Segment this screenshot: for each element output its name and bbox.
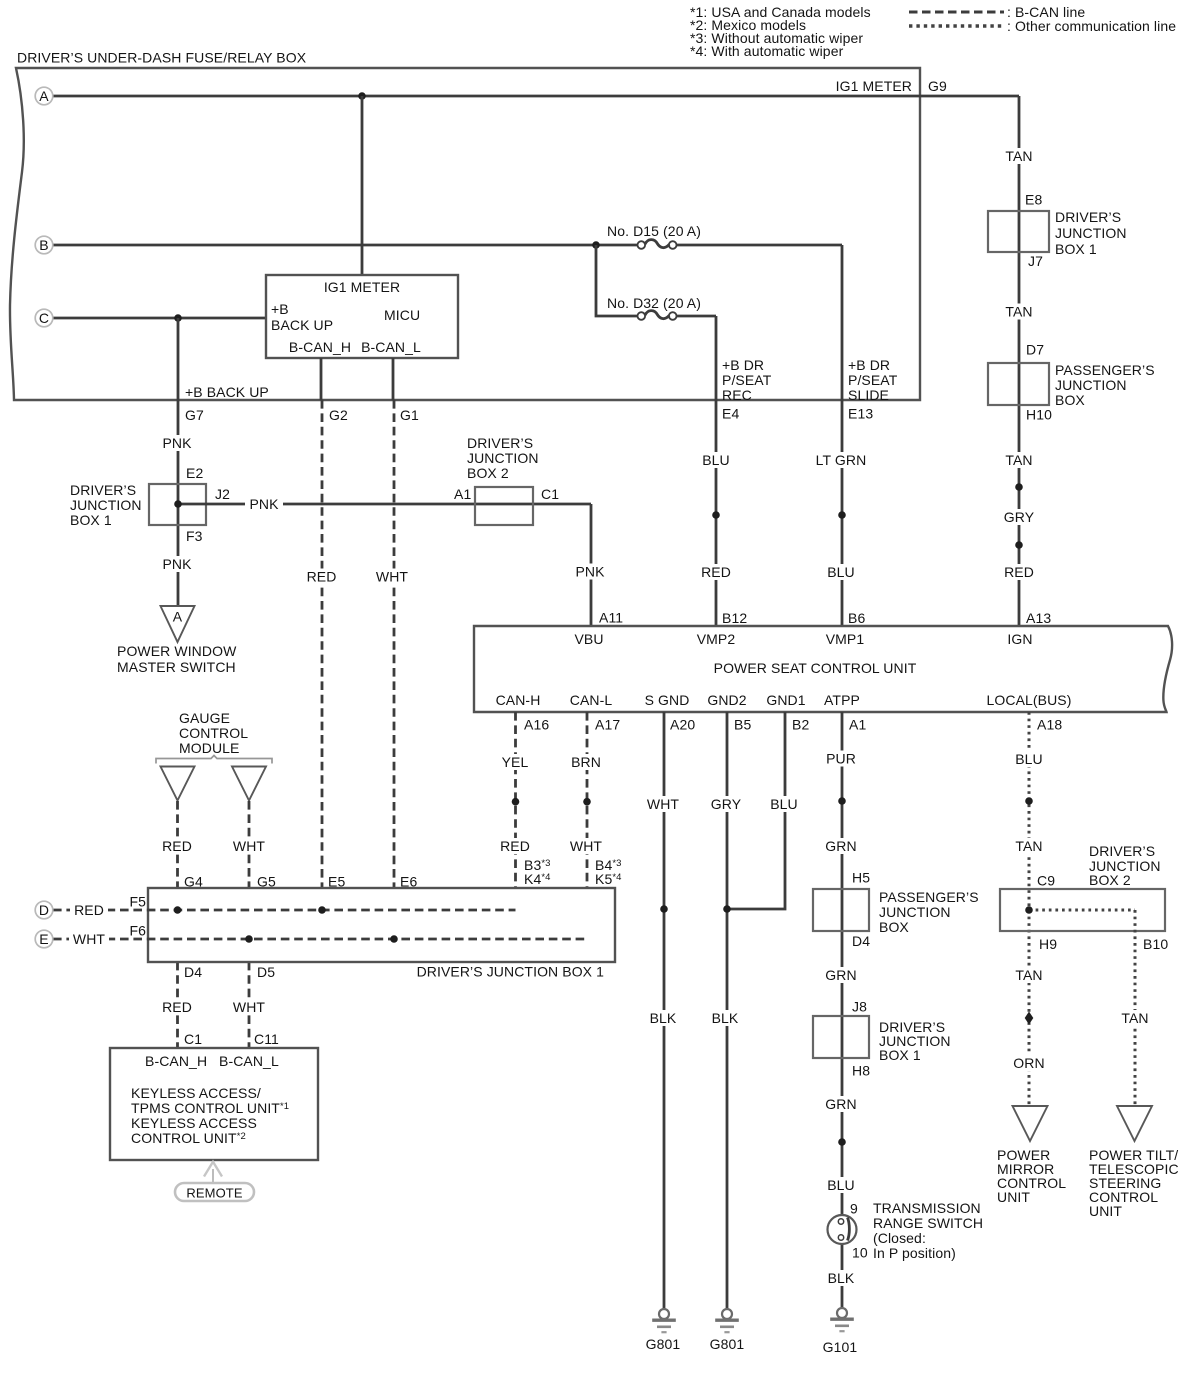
label power mirror control unit — [997, 1147, 1066, 1205]
pin G7 — [185, 407, 204, 423]
svg-text:DRIVER’S: DRIVER’S — [1055, 209, 1121, 225]
svg-text:IGN: IGN — [1007, 631, 1032, 647]
svg-text:BLK: BLK — [650, 1010, 677, 1026]
svg-text:JUNCTION: JUNCTION — [1055, 225, 1127, 241]
svg-text:PUR: PUR — [826, 750, 856, 766]
transmission range switch — [828, 1215, 857, 1244]
svg-text:PNK: PNK — [575, 563, 605, 579]
dotted branch inside junction box 2 — [1029, 910, 1135, 1106]
svg-text:UNIT: UNIT — [1089, 1203, 1122, 1219]
pin name B-CAN_H (keyless) — [145, 1053, 207, 1069]
wire label RED on G4 line — [159, 838, 195, 854]
wire B-CAN row F6 (dashed) — [53, 938, 587, 941]
wire label ORN — [1010, 1055, 1048, 1071]
wire label BLU below E4 — [698, 452, 734, 468]
svg-text:WHT: WHT — [233, 838, 266, 854]
label driver's junction box 1 (bottom) — [417, 963, 605, 979]
wire branch to fuse D32 — [596, 245, 716, 626]
svg-text:E2: E2 — [186, 465, 203, 481]
pin H5 — [852, 869, 870, 885]
label passenger's junction box (mid right) — [879, 889, 979, 935]
pin J8 — [852, 998, 867, 1014]
junction dot G5/F6 — [245, 935, 253, 943]
note *4 With automatic wiper — [690, 43, 844, 59]
wire label BLU above switch — [823, 1177, 859, 1193]
pin H8 — [852, 1062, 870, 1078]
wire label GRN above H5 — [822, 838, 860, 854]
svg-text:PASSENGER’S: PASSENGER’S — [1055, 362, 1155, 378]
svg-text:PNK: PNK — [162, 435, 192, 451]
svg-text:G801: G801 — [710, 1336, 745, 1352]
pin G5 — [257, 873, 276, 889]
ground G801 left — [652, 1309, 676, 1332]
svg-text:WHT: WHT — [570, 838, 603, 854]
pin B6 — [848, 610, 865, 626]
svg-text:B5: B5 — [734, 716, 751, 732]
svg-text:VMP2: VMP2 — [697, 631, 736, 647]
pin B3*3 — [524, 857, 551, 873]
svg-text:MODULE: MODULE — [179, 740, 240, 756]
svg-text:GRY: GRY — [711, 796, 742, 812]
wire label TAN below H10 — [1001, 452, 1037, 468]
svg-text:No. D32 (20 A): No. D32 (20 A) — [607, 295, 701, 311]
svg-text:BOX 2: BOX 2 — [1089, 872, 1131, 888]
wire label BLU above B6 — [823, 564, 859, 580]
pin B-CAN_H label — [289, 339, 351, 355]
svg-text:C11: C11 — [254, 1031, 279, 1047]
wire label WHT at node E — [69, 931, 109, 947]
svg-text:GRN: GRN — [825, 1096, 856, 1112]
pin C1 (junction box 2) — [541, 486, 559, 502]
svg-text:J8: J8 — [852, 998, 867, 1014]
svg-text:JUNCTION: JUNCTION — [1055, 377, 1127, 393]
svg-text:DRIVER’S JUNCTION BOX 1: DRIVER’S JUNCTION BOX 1 — [417, 963, 605, 979]
svg-text:G7: G7 — [185, 407, 204, 423]
fuse D15 (20 A) — [638, 240, 677, 249]
splice dot on IGN wire lower — [1015, 541, 1023, 549]
svg-text:D: D — [39, 902, 49, 918]
svg-text:B2: B2 — [792, 716, 809, 732]
svg-text:LOCAL(BUS): LOCAL(BUS) — [986, 692, 1071, 708]
pin name S GND — [645, 692, 690, 708]
circle node E — [35, 930, 53, 948]
svg-text:B6: B6 — [848, 610, 865, 626]
pin H9 — [1039, 936, 1057, 952]
svg-text:A18: A18 — [1037, 716, 1062, 732]
pin A17 — [595, 716, 620, 732]
pin H10 — [1026, 406, 1052, 422]
wire label YEL — [498, 754, 532, 770]
wire label BLU on GND1 — [766, 796, 802, 812]
svg-text:TAN: TAN — [1015, 967, 1042, 983]
passenger's junction box connector D7/H10 — [988, 363, 1049, 405]
driver's junction box 1 connector E2/F3-J2 — [149, 484, 206, 525]
wire G7 branch down to power window master switch — [177, 318, 180, 606]
wire label RED on G2 line — [304, 568, 340, 584]
splice dot on ATPP upper — [838, 797, 846, 805]
label driver's junction box 1 (top right) — [1055, 209, 1127, 257]
wire label TAN between J7 and D7 — [1001, 303, 1037, 319]
splice dot on CAN-H — [512, 798, 520, 806]
svg-text:WHT: WHT — [647, 796, 680, 812]
label driver's junction box 1 (left) — [70, 482, 142, 528]
splice dot on S GND — [660, 905, 668, 913]
svg-text:B12: B12 — [722, 610, 747, 626]
junction dot inside junction box 2 — [1025, 906, 1033, 914]
driver's junction box 1 connector J8/H8 — [813, 1016, 869, 1058]
pin D7 — [1026, 341, 1044, 357]
svg-text:C9: C9 — [1037, 872, 1055, 888]
svg-text:9: 9 — [850, 1200, 858, 1216]
splice dot on ATPP lower — [838, 1138, 846, 1146]
pin name IGN — [1007, 631, 1032, 647]
label +B BACK UP at G7 exit — [185, 384, 269, 400]
driver's junction box 2 connector A1/C1 — [475, 487, 533, 525]
pin name LOCAL(BUS) — [986, 692, 1071, 708]
wire IG1 METER feed from bus A — [361, 96, 364, 275]
label driver's junction box 2 (right) — [1089, 843, 1161, 888]
svg-text:+B DR: +B DR — [848, 357, 890, 373]
svg-text:REC: REC — [722, 387, 752, 403]
svg-text:B-CAN_L: B-CAN_L — [361, 339, 421, 355]
pin C11 (keyless unit) — [254, 1031, 279, 1047]
label MICU — [384, 307, 420, 323]
svg-text:POWER SEAT CONTROL UNIT: POWER SEAT CONTROL UNIT — [714, 660, 917, 676]
wire B-CAN gauge WHT to keyless unit (dashed) — [248, 801, 251, 1048]
wire label PNK above power window master switch — [159, 556, 195, 572]
svg-text:REMOTE: REMOTE — [186, 1185, 242, 1200]
connector arrow to power mirror control unit — [1013, 1106, 1048, 1141]
svg-text:A: A — [39, 88, 49, 104]
svg-text:D4: D4 — [184, 964, 202, 980]
wire LOCAL(BUS) dotted to driver's junction box 2 — [1028, 712, 1031, 1106]
wire label TAN on B10 run — [1117, 1010, 1153, 1026]
svg-text:J7: J7 — [1028, 253, 1043, 269]
driver's under-dash fuse/relay box outline — [10, 68, 920, 400]
svg-text:*4: With automatic wiper: *4: With automatic wiper — [690, 43, 844, 59]
svg-text:B10: B10 — [1143, 936, 1168, 952]
pin C9 — [1037, 872, 1055, 888]
svg-text:TAN: TAN — [1005, 148, 1032, 164]
pin G9 — [928, 78, 947, 94]
wire label BLK on S GND — [645, 1010, 681, 1026]
wire label GRY on GND2 — [707, 796, 745, 812]
pin E8 — [1025, 191, 1042, 207]
junction dot E5/F5 — [318, 906, 326, 914]
svg-text:BRN: BRN — [571, 754, 601, 770]
wire label PNK above A11 — [571, 563, 609, 579]
svg-text:B: B — [39, 237, 48, 253]
wire label GRY — [1000, 509, 1038, 525]
label +B DR P/SEAT SLIDE — [848, 357, 898, 403]
wire label GRN below H8 — [822, 1096, 860, 1112]
svg-text:E: E — [39, 931, 48, 947]
pin F6 — [129, 922, 146, 938]
svg-text:BOX 1: BOX 1 — [1055, 241, 1097, 257]
wire label LT GRN below E13 — [813, 452, 869, 468]
pin B-CAN_L label — [361, 339, 421, 355]
svg-text:C1: C1 — [184, 1031, 202, 1047]
svg-text:D4: D4 — [852, 933, 870, 949]
connector arrow A power window master switch — [161, 606, 195, 642]
svg-text:PNK: PNK — [249, 496, 279, 512]
label power window master switch — [117, 643, 237, 675]
svg-text:BOX: BOX — [1055, 392, 1085, 408]
junction dot on bus C for G7 branch — [174, 314, 182, 322]
svg-text:D7: D7 — [1026, 341, 1044, 357]
ground G801 right — [715, 1309, 739, 1332]
label No. D32 (20 A) — [607, 295, 701, 311]
wire label PNK below G7 — [159, 435, 195, 451]
svg-text:DRIVER’S: DRIVER’S — [1089, 843, 1155, 859]
svg-text:TPMS CONTROL UNIT*1: TPMS CONTROL UNIT*1 — [131, 1100, 289, 1116]
pin 10 — [852, 1244, 868, 1260]
svg-text:A1: A1 — [849, 716, 866, 732]
svg-text:A13: A13 — [1026, 610, 1051, 626]
IG1 METER unit title — [324, 279, 400, 295]
junction dot on bus A at IG1 METER tap — [358, 92, 366, 100]
svg-text:A17: A17 — [595, 716, 620, 732]
wire label PNK on J2 wire — [245, 496, 283, 512]
svg-text:ATPP: ATPP — [824, 692, 860, 708]
label driver's junction box 2 (mid) — [467, 435, 539, 481]
splice diamond on H9 run — [1025, 1012, 1034, 1025]
svg-text:No. D15 (20 A): No. D15 (20 A) — [607, 223, 701, 239]
wire ATPP to transmission range switch — [841, 712, 844, 1309]
svg-text:RED: RED — [307, 568, 337, 584]
svg-text:BOX: BOX — [879, 919, 909, 935]
wire B-CAN gauge RED to keyless unit (dashed) — [176, 801, 179, 1048]
pin A1 (power seat control unit) — [849, 716, 866, 732]
svg-text:RED: RED — [701, 564, 731, 580]
note *3 Without automatic wiper — [690, 30, 863, 46]
svg-text:G1: G1 — [400, 407, 419, 423]
label driver's under-dash fuse/relay box — [17, 49, 307, 65]
svg-text:BLU: BLU — [1015, 751, 1043, 767]
svg-text:WHT: WHT — [376, 568, 409, 584]
svg-text:+B DR: +B DR — [722, 357, 764, 373]
svg-text:GRN: GRN — [825, 838, 856, 854]
pin A18 — [1037, 716, 1062, 732]
pin G4 — [184, 873, 203, 889]
wire CAN-H B-CAN (dashed) — [514, 712, 517, 910]
label power tilt/telescopic steering control unit — [1089, 1147, 1179, 1219]
svg-text:BLU: BLU — [827, 564, 855, 580]
junction dot G4/F5 — [174, 906, 182, 914]
svg-text:VMP1: VMP1 — [826, 631, 865, 647]
junction dot E6/F6 — [390, 935, 398, 943]
wire B-CAN_L stub to G1 — [392, 358, 395, 400]
svg-text:BLU: BLU — [770, 796, 798, 812]
wire label BLK on GND2 — [707, 1010, 743, 1026]
svg-text:G2: G2 — [329, 407, 348, 423]
pin K4*4 — [524, 871, 551, 887]
svg-text:KEYLESS ACCESS: KEYLESS ACCESS — [131, 1115, 257, 1131]
svg-text:PASSENGER’S: PASSENGER’S — [879, 889, 979, 905]
svg-text:A20: A20 — [670, 716, 695, 732]
svg-text:C1: C1 — [541, 486, 559, 502]
svg-text:JUNCTION: JUNCTION — [70, 497, 142, 513]
wire B-CAN G2 to E5 (dashed) — [321, 400, 324, 910]
gauge control module bracket — [156, 756, 272, 764]
wire bus A — [53, 96, 1019, 626]
svg-text:DRIVER’S: DRIVER’S — [70, 482, 136, 498]
svg-text:BOX 2: BOX 2 — [467, 465, 509, 481]
wire label RED at node D — [70, 902, 108, 918]
wire label WHT on G5 line — [229, 838, 269, 854]
label gauge control module — [179, 710, 248, 756]
power seat control unit title — [714, 660, 917, 676]
pin G2 — [329, 407, 348, 423]
driver's junction box 1 main box — [148, 888, 615, 962]
driver's junction box 2 connector C9/H9-B10 — [1000, 889, 1165, 931]
svg-text:IG1 METER: IG1 METER — [836, 78, 912, 94]
wire S GND to ground G801 — [663, 712, 666, 1309]
pin name CAN-L — [570, 692, 613, 708]
splice dot on LOCAL(BUS) — [1025, 797, 1033, 805]
svg-text:P/SEAT: P/SEAT — [848, 372, 898, 388]
junction dot E2/F3/J2 — [174, 500, 182, 508]
svg-text:E4: E4 — [722, 405, 739, 421]
svg-text:A16: A16 — [524, 716, 549, 732]
pin D4 (passenger's junction box) — [852, 933, 870, 949]
svg-text:TAN: TAN — [1121, 1010, 1148, 1026]
wire label WHT on S GND — [643, 796, 683, 812]
svg-text:TRANSMISSION: TRANSMISSION — [873, 1200, 981, 1216]
svg-text:WHT: WHT — [233, 999, 266, 1015]
wire label RED above C1 — [159, 999, 195, 1015]
svg-text:RED: RED — [1004, 564, 1034, 580]
fuse D32 (20 A) — [638, 311, 677, 320]
splice dot on VMP1 wire — [838, 511, 846, 519]
passenger's junction box connector H5/D4 — [813, 889, 869, 931]
wire B-CAN row F5 (dashed) — [53, 909, 516, 912]
svg-text:KEYLESS ACCESS/: KEYLESS ACCESS/ — [131, 1085, 261, 1101]
svg-text:CONTROL: CONTROL — [179, 725, 248, 741]
svg-text:RED: RED — [74, 902, 104, 918]
circle node C — [35, 309, 53, 327]
svg-text:RED: RED — [162, 999, 192, 1015]
pin +B BACK UP label — [271, 301, 333, 333]
pin K5*4 — [595, 871, 622, 887]
connector arrow gauge control module left — [161, 767, 195, 801]
pin D4 (junction box bottom) — [184, 964, 202, 980]
splice dot on VMP2 wire — [712, 511, 720, 519]
svg-text:RED: RED — [500, 838, 530, 854]
svg-text:G9: G9 — [928, 78, 947, 94]
svg-text:CAN-H: CAN-H — [496, 692, 541, 708]
label IG1 METER at box exit G9 — [836, 78, 912, 94]
svg-text:G101: G101 — [823, 1339, 858, 1355]
wire bus B with fuse D15 — [53, 245, 842, 626]
svg-text:: Other communication line: : Other communication line — [1007, 18, 1176, 34]
pin name VMP1 — [826, 631, 865, 647]
svg-text:ORN: ORN — [1013, 1055, 1044, 1071]
pin G1 — [400, 407, 419, 423]
pin D5 — [257, 964, 275, 980]
pin E5 — [328, 873, 345, 889]
svg-text:A11: A11 — [599, 609, 623, 625]
label G101 — [823, 1339, 858, 1355]
wire label TAN below H9 — [1011, 967, 1047, 983]
svg-text:GAUGE: GAUGE — [179, 710, 230, 726]
svg-text:H8: H8 — [852, 1062, 870, 1078]
legend other communication line sample — [909, 18, 1176, 34]
wire GND1 joins GND2 — [727, 712, 785, 909]
driver's junction box 1 connector E8/J7 — [988, 211, 1049, 252]
wire label RED on CAN-H — [497, 838, 533, 854]
svg-text:A1: A1 — [454, 486, 471, 502]
svg-text:E8: E8 — [1025, 191, 1042, 207]
wire label BLK above G101 — [823, 1270, 859, 1286]
svg-text:G801: G801 — [646, 1336, 681, 1352]
connector arrow to power tilt/telescopic steering control unit — [1117, 1106, 1152, 1141]
wire B-CAN G1 to E6 (dashed) — [393, 400, 396, 939]
circle node B — [35, 236, 53, 254]
label transmission range switch — [873, 1200, 983, 1261]
pin B5 — [734, 716, 751, 732]
pin 9 — [850, 1200, 858, 1216]
svg-text:MICU: MICU — [384, 307, 420, 323]
legend B-CAN line sample — [909, 4, 1085, 20]
pin E2 — [186, 465, 203, 481]
svg-text:F5: F5 — [129, 893, 146, 909]
svg-text:(Closed:: (Closed: — [873, 1230, 926, 1246]
wire label TAN above C9 — [1011, 838, 1047, 854]
power seat control unit box — [474, 626, 1172, 712]
label keyless access/TPMS control unit — [131, 1085, 289, 1146]
svg-text:+B BACK UP: +B BACK UP — [185, 384, 269, 400]
splice dot on IGN wire upper — [1015, 483, 1023, 491]
svg-text:D5: D5 — [257, 964, 275, 980]
pin F3 — [186, 528, 203, 544]
svg-text:E13: E13 — [848, 405, 873, 421]
svg-text:MASTER SWITCH: MASTER SWITCH — [117, 659, 236, 675]
svg-text:J2: J2 — [215, 486, 230, 502]
pin C1 (keyless unit) — [184, 1031, 202, 1047]
label +B DR P/SEAT REC — [722, 357, 772, 403]
svg-text:P/SEAT: P/SEAT — [722, 372, 772, 388]
svg-text:JUNCTION: JUNCTION — [879, 904, 951, 920]
svg-text:B-CAN_H: B-CAN_H — [289, 339, 351, 355]
svg-text:BOX 1: BOX 1 — [70, 512, 112, 528]
svg-text:VBU: VBU — [574, 631, 603, 647]
svg-text:H9: H9 — [1039, 936, 1057, 952]
svg-text:DRIVER’S: DRIVER’S — [467, 435, 533, 451]
pin A11 — [599, 609, 623, 625]
svg-text:TAN: TAN — [1005, 303, 1032, 319]
label No. D15 (20 A) — [607, 223, 701, 239]
pin J2 — [215, 486, 230, 502]
label passenger's junction box (top right) — [1055, 362, 1155, 408]
keyless access/TPMS control unit box — [110, 1048, 318, 1160]
connector arrow gauge control module right — [232, 767, 266, 801]
svg-text:H10: H10 — [1026, 406, 1052, 422]
svg-text:TAN: TAN — [1005, 452, 1032, 468]
svg-text:GRY: GRY — [1004, 509, 1035, 525]
svg-text:UNIT: UNIT — [997, 1189, 1030, 1205]
svg-text:A: A — [173, 609, 183, 625]
pin E4 — [722, 405, 739, 421]
svg-text:PNK: PNK — [162, 556, 192, 572]
svg-text:SLIDE: SLIDE — [848, 387, 889, 403]
svg-text:B-CAN_L: B-CAN_L — [219, 1053, 279, 1069]
wire bus C to IG1 METER +B BACK UP — [53, 317, 266, 320]
pin A13 — [1026, 610, 1051, 626]
pin A1 (junction box 2) — [454, 486, 471, 502]
pin name VMP2 — [697, 631, 736, 647]
svg-text:WHT: WHT — [73, 931, 106, 947]
